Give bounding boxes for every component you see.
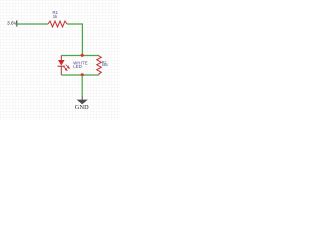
- svg-text:LED: LED: [73, 64, 82, 69]
- svg-text:GND: GND: [75, 104, 89, 111]
- svg-text:680: 680: [102, 63, 108, 67]
- svg-text:3.6V: 3.6V: [7, 21, 18, 27]
